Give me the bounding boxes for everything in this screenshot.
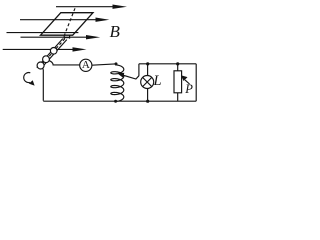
node dot lamp top [146, 62, 149, 65]
wire ring2 to ammeter [49, 61, 80, 65]
wire ring2 down-left [42, 68, 43, 101]
coil lead right [69, 35, 71, 38]
rheostat arrow [181, 75, 190, 84]
rheostat bottom lead [177, 93, 179, 101]
slip ring 2 [43, 56, 50, 63]
bottom rail [43, 100, 196, 102]
node dot 1 [115, 62, 118, 65]
shaft centerline dashed [39, 39, 65, 68]
label P [185, 82, 193, 97]
lamp L1 [141, 76, 154, 89]
rotation arrow [24, 73, 35, 86]
lamp top lead [147, 64, 149, 76]
coil lead left [63, 35, 65, 39]
field line B1 [56, 5, 127, 9]
lamp bottom lead [147, 88, 149, 101]
field line B3 [7, 32, 79, 34]
label L [154, 73, 162, 90]
ammeter A1 [80, 59, 92, 71]
node dot coil bottom [114, 100, 117, 103]
top rail [139, 63, 196, 65]
field line B2 [20, 18, 109, 22]
rheostat top lead [177, 64, 179, 71]
slip ring 3 [37, 62, 44, 69]
coil axis (dashed) [64, 8, 75, 35]
wiper arrow [118, 73, 139, 79]
label B [110, 22, 120, 42]
node dot lamp bottom [146, 100, 149, 103]
coil lead jog [64, 37, 69, 39]
inductor coil [111, 65, 124, 102]
node dot rheostat top [176, 62, 179, 65]
field line B5 [3, 47, 87, 51]
right vertical [195, 64, 197, 101]
shaft right line [41, 40, 67, 69]
slip ring 1 [50, 48, 57, 55]
riser to top rail [138, 64, 140, 76]
rheostat body [174, 71, 182, 93]
rotating coil frame (parallelogram) [41, 13, 94, 36]
field line B4 [21, 35, 101, 39]
ammeter wire to node [92, 64, 115, 65]
lamp X [143, 77, 152, 86]
coil bottom connect [114, 100, 116, 102]
label A [81, 59, 91, 71]
shaft left line [37, 39, 63, 68]
